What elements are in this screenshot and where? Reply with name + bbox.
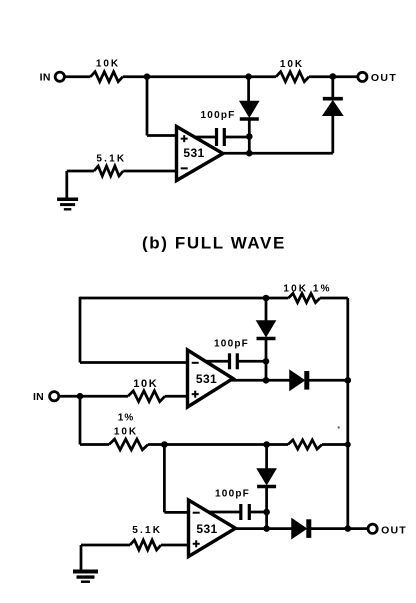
- wire compensation to capacitor C2: [206, 360, 230, 363]
- resistor R1 10K: [91, 59, 123, 82]
- ground (bottom circuit): [73, 572, 98, 582]
- wire D5 cathode down: [265, 487, 268, 512]
- wire IN to R1: [64, 75, 90, 78]
- wire R4 to op-amp U2 noninverting input: [165, 395, 189, 398]
- svg-text:IN: IN: [33, 391, 44, 403]
- node M (right rail): [345, 377, 352, 384]
- resistor R3 5.1K: [94, 154, 126, 176]
- capacitor C1 100pF: [201, 110, 236, 146]
- node A (summing junction): [144, 73, 151, 80]
- wire inverting input to R3: [123, 170, 178, 173]
- wire R3 to ground: [67, 170, 94, 173]
- wire node K down to output node: [265, 361, 268, 380]
- wire to R6: [80, 443, 109, 446]
- svg-text:100pF: 100pF: [214, 338, 249, 349]
- wire U2 output: [231, 379, 290, 382]
- OUT terminal (bottom circuit): [368, 524, 407, 536]
- wire R1 to R2 (input rail): [123, 75, 276, 78]
- node P (right rail bottom): [345, 525, 352, 532]
- wire R7 to right rail: [322, 443, 348, 446]
- svg-text:(b) FULL WAVE: (b) FULL WAVE: [142, 234, 286, 253]
- wire C3 to node N: [249, 511, 266, 514]
- ground (top circuit): [57, 199, 78, 209]
- wire node G down to diode D3: [265, 298, 268, 321]
- svg-text:531: 531: [183, 146, 204, 160]
- resistor R5 10K 1%: [283, 284, 331, 303]
- wire node F down to R6: [79, 396, 82, 444]
- wire left vertical to U2 inverting input: [79, 297, 82, 363]
- node N: [263, 509, 270, 516]
- wire U3 noninverting input to R8: [161, 544, 190, 547]
- wire D6 cathode to OUT: [309, 527, 368, 530]
- node F (input node): [77, 393, 84, 400]
- wire D4 cathode to right rail: [307, 379, 348, 382]
- node K: [263, 358, 270, 365]
- diode D5: [257, 469, 276, 487]
- wire node H down to U3 inverting input: [163, 445, 166, 513]
- wire R5 to right rail corner: [320, 297, 348, 300]
- OUT terminal (top circuit): [358, 72, 397, 84]
- svg-text:10K: 10K: [133, 378, 158, 390]
- op-amp U2 531: [188, 350, 234, 407]
- diode D2: [323, 99, 343, 116]
- diode D3: [257, 321, 276, 339]
- diode D6: [292, 519, 309, 538]
- svg-text:5.1K: 5.1K: [132, 525, 162, 536]
- wire C2 to node K: [237, 360, 266, 363]
- wire node I down to diode D5: [265, 445, 268, 470]
- wire right rail: [346, 298, 349, 529]
- wire compensation to capacitor C3: [207, 511, 241, 514]
- wire op-amp output rail: [222, 152, 333, 155]
- resistor R8 5.1K: [130, 525, 162, 550]
- wire node B down to diode D1: [247, 77, 250, 102]
- node L (U2 output): [263, 377, 270, 384]
- resistor R6 10K 1%: [109, 413, 148, 450]
- IN terminal (top circuit): [40, 72, 65, 84]
- svg-text:531: 531: [196, 372, 217, 386]
- node D: [246, 133, 253, 140]
- svg-text:OUT: OUT: [371, 72, 397, 84]
- wire node N down to output node: [265, 512, 268, 529]
- wire C1 to node D: [224, 136, 249, 139]
- wire D1 cathode down: [248, 119, 251, 153]
- node O (U3 output): [263, 525, 270, 532]
- svg-text:10K: 10K: [96, 59, 120, 70]
- wire feedback rail (top): [80, 297, 289, 300]
- svg-text:OUT: OUT: [381, 524, 407, 536]
- wire D2 cathode to node C: [331, 77, 334, 98]
- node E: [246, 150, 253, 157]
- svg-text:1%: 1%: [118, 413, 134, 424]
- speck artifact: [338, 426, 340, 428]
- resistor R2 10K: [276, 59, 309, 82]
- op-amp U1 531: [177, 127, 224, 181]
- wire R8 to ground: [81, 544, 130, 547]
- node J (right rail mid): [345, 442, 351, 448]
- IN terminal (bottom circuit): [33, 391, 59, 403]
- svg-text:100pF: 100pF: [215, 489, 250, 500]
- node H: [161, 441, 168, 448]
- op-amp U3 531: [189, 500, 236, 557]
- node B: [245, 73, 252, 80]
- wire mid rail: [148, 443, 288, 446]
- resistor R4 10K: [128, 378, 165, 402]
- node I: [263, 441, 270, 448]
- wire compensation to capacitor C1: [195, 136, 217, 139]
- diode D4: [290, 371, 307, 390]
- svg-text:10K: 10K: [114, 427, 138, 438]
- svg-text:IN: IN: [40, 72, 51, 84]
- node G: [263, 295, 270, 302]
- wire node A down to noninverting input: [146, 77, 149, 136]
- svg-text:10K 1%: 10K 1%: [283, 284, 331, 295]
- capacitor C2 100pF: [214, 338, 249, 369]
- svg-text:531: 531: [196, 522, 217, 536]
- svg-text:10K: 10K: [280, 59, 304, 70]
- wire IN to R4: [59, 395, 128, 398]
- wire R2 to OUT: [309, 75, 358, 78]
- diode D1: [240, 102, 259, 120]
- wire U3 output: [233, 527, 292, 530]
- wire D3 cathode down: [265, 339, 268, 362]
- svg-text:100pF: 100pF: [201, 110, 236, 121]
- capacitor C3 100pF: [215, 489, 250, 521]
- wire up to diode D2: [331, 115, 334, 153]
- node C: [330, 73, 337, 80]
- resistor R7 (mid right): [288, 440, 322, 449]
- svg-text:5.1K: 5.1K: [96, 154, 126, 165]
